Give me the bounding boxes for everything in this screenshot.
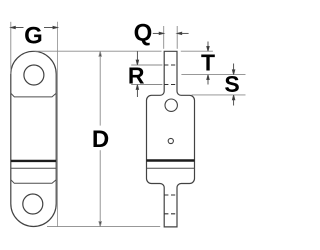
right view: hidden line bottom hole lower (164, 213, 177, 215)
dimension S arrows (outside) (232, 64, 234, 106)
svg-text:G: G (24, 22, 43, 49)
right view: hidden line bottom hole upper (164, 194, 177, 196)
svg-text:T: T (201, 50, 215, 76)
svg-text:S: S (224, 71, 239, 97)
extension line: S bottom (body top extended right) (192, 94, 246, 96)
extension line: G right, runs down to bottom ext (57, 22, 59, 227)
left view: top hole (24, 65, 44, 85)
right view: body outline with top tongue and bottom stem (147, 51, 195, 227)
dimension Q arrows (153, 32, 189, 34)
right view: hidden line top hole upper (164, 64, 177, 66)
dimension T arrows (outside) (207, 42, 209, 85)
right view: small hole (168, 138, 173, 143)
dimension G arrows (11, 26, 58, 28)
extension line: top (connects dome top to tongue top) (35, 50, 162, 52)
extension line: T top (tongue top extended right) (181, 50, 213, 52)
extension line: G left (above strap edge) (10, 22, 12, 74)
dimension R arrows (outside) (136, 51, 138, 97)
extension line: Q left (163, 26, 165, 49)
extension line: R upper (to hidden hole top) (131, 64, 162, 66)
right view: thin line under band (147, 167, 195, 169)
right view: dark weld band (147, 159, 195, 161)
extension line: bottom (connects strap bottom to stem bottom) (47, 226, 160, 228)
left view: eye strap outline (11, 51, 56, 226)
svg-text:R: R (128, 62, 145, 88)
left view: lower plate edge line with chamfers (11, 180, 56, 184)
dimension D line with arrows (99, 51, 101, 226)
right view: hidden line top hole lower (164, 84, 177, 86)
left view: upper plate edge line with chamfers (11, 93, 56, 97)
left view: bottom hole (23, 194, 43, 214)
extension line: Q right (176, 26, 178, 49)
extension line: R lower (to hidden hole bottom) (131, 84, 162, 86)
extension line: T bottom / S top (hole centre level) (181, 74, 245, 76)
left view: thin line under band (11, 167, 56, 169)
svg-text:D: D (92, 126, 109, 153)
left view: dark weld band (11, 160, 56, 162)
svg-text:Q: Q (134, 20, 153, 47)
right view: big hole (165, 99, 177, 111)
